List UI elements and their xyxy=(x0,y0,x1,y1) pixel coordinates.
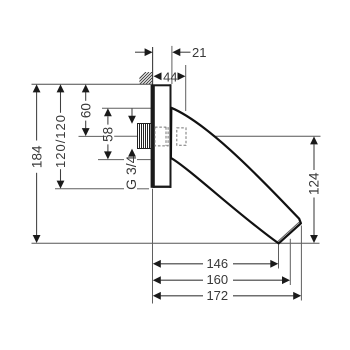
svg-text:146: 146 xyxy=(206,256,228,271)
top extension line at plate top xyxy=(32,83,153,85)
spout body xyxy=(171,108,301,244)
120/120 bottom extension xyxy=(55,188,124,190)
dimension 184 xyxy=(36,92,38,236)
dimension 58 xyxy=(107,116,109,151)
dimension 120/120 xyxy=(60,92,62,181)
svg-text:172: 172 xyxy=(206,288,228,303)
hidden connector dashed rect 2 xyxy=(177,128,186,145)
centerline xyxy=(189,135,321,137)
plate top edge xyxy=(152,84,171,86)
hidden connector dashed rect 1 xyxy=(155,127,168,146)
svg-text:60: 60 xyxy=(78,103,93,118)
svg-text:21: 21 xyxy=(192,45,206,60)
dimension 146 xyxy=(161,263,271,265)
dimension 124 xyxy=(313,144,315,235)
wall face line above plate xyxy=(152,47,154,85)
svg-text:160: 160 xyxy=(206,272,228,287)
plate bottom edge xyxy=(153,186,172,188)
svg-text:184: 184 xyxy=(29,145,44,168)
right extension 172 xyxy=(300,226,302,301)
bottom left extension (wall) xyxy=(152,189,154,304)
extension line 44 right xyxy=(185,65,187,111)
centerline segment left (60 ext) xyxy=(79,135,107,137)
svg-text:124: 124 xyxy=(307,172,322,195)
dimension 21 xyxy=(135,51,191,53)
dimension 60 xyxy=(85,92,87,128)
dimension 44 xyxy=(154,72,162,80)
right extension 160 xyxy=(289,239,291,285)
dimension G 3/4 xyxy=(131,108,133,116)
spout outlet inner line xyxy=(278,222,300,242)
extension line plate front (21 dim) xyxy=(171,46,173,84)
escutcheon plate back bar xyxy=(151,85,155,188)
svg-text:58: 58 xyxy=(101,127,116,142)
58 top extension xyxy=(102,107,152,109)
threaded nipple xyxy=(138,124,151,149)
58 bottom extension xyxy=(98,159,124,161)
bottom baseline xyxy=(32,242,320,244)
plate front edge xyxy=(170,84,172,188)
dimension 160 xyxy=(161,279,283,281)
dimension 172 xyxy=(161,295,294,297)
svg-text:G 3/4: G 3/4 xyxy=(123,155,139,189)
wall hatch xyxy=(130,72,167,88)
svg-text:120/120: 120/120 xyxy=(53,114,68,168)
svg-text:4: 4 xyxy=(170,69,177,84)
right extension 146 xyxy=(278,245,280,269)
